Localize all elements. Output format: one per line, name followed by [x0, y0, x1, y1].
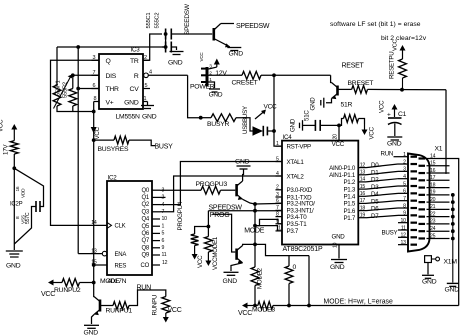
svg-text:AT89C2051P: AT89C2051P — [283, 246, 323, 253]
wire run collector — [93, 283, 95, 297]
resistor VCCMODE1 — [205, 237, 213, 253]
resistor RUNPU1 — [113, 302, 129, 310]
svg-text:+: + — [387, 112, 391, 119]
wire LED to column — [267, 130, 274, 132]
X1 pin 14 stub — [427, 158, 450, 160]
svg-text:4: 4 — [149, 70, 152, 76]
wire V+ pin drop — [93, 102, 95, 112]
svg-text:Q4: Q4 — [141, 217, 149, 223]
IC3 pin 1 GND stub — [143, 101, 148, 103]
wire ENA — [78, 253, 102, 255]
X1 pin 17 stub — [427, 179, 450, 181]
svg-text:23: 23 — [430, 219, 436, 225]
svg-text:7: 7 — [403, 196, 406, 202]
IC3 pin 5 CV stub — [143, 88, 150, 90]
wire PROGPU3 to base — [221, 189, 236, 191]
svg-text:RES: RES — [115, 263, 127, 269]
wire loop right drop — [308, 256, 310, 306]
wire D4 net — [366, 193, 398, 196]
junction V+ rail — [92, 110, 96, 114]
svg-text:11: 11 — [162, 252, 167, 258]
svg-text:P1.4: P1.4 — [343, 194, 355, 201]
svg-text:bit 2 clear=12v: bit 2 clear=12v — [381, 35, 427, 42]
wire r0 branch — [255, 244, 289, 266]
svg-text:RESETPU: RESETPU — [389, 52, 396, 79]
wire cap left join — [165, 34, 167, 47]
wire base to BRESET — [338, 88, 352, 90]
svg-text:13: 13 — [360, 170, 366, 176]
wire mode collector — [243, 244, 255, 245]
wire speedsw to vccmode1 — [207, 211, 209, 237]
svg-text:24: 24 — [430, 226, 436, 232]
ground run transistor — [84, 324, 99, 326]
wire top rail into 555C2 — [162, 46, 166, 48]
svg-text:3: 3 — [403, 167, 406, 173]
svg-text:557C: 557C — [25, 212, 31, 224]
wire 51C to vcc node — [320, 124, 339, 126]
wire IC2P cap branch lower — [14, 207, 36, 245]
X1 pin 24 stub — [427, 230, 450, 232]
X1 pin 19 stub — [427, 194, 450, 196]
svg-text:10: 10 — [401, 218, 407, 224]
svg-text:Q7: Q7 — [141, 238, 149, 244]
wire collector from reset rail — [330, 75, 333, 82]
power VCC arrow at LED — [255, 112, 264, 120]
ground under speed transistor — [227, 47, 241, 49]
ground sideways at reset emitter — [323, 98, 325, 108]
transistor Q speed switch — [213, 28, 216, 41]
IC4 pin 10 GND stub — [338, 245, 340, 259]
IC3 ground pin1 — [141, 105, 154, 107]
wire 555 R to drop — [148, 74, 187, 76]
svg-text:CO: CO — [141, 263, 150, 269]
resistor MODE3 — [258, 302, 273, 310]
svg-text:51C: 51C — [304, 110, 311, 121]
svg-text:MODE: H=wr, L=erase: MODE: H=wr, L=erase — [324, 298, 393, 305]
junction gnd bus pin 24 — [451, 229, 455, 233]
wire Q0 to PROGPU3 — [160, 189, 201, 191]
svg-text:GND: GND — [84, 330, 99, 336]
junction BUSYRES tee — [92, 138, 96, 142]
svg-text:GND: GND — [387, 141, 402, 148]
wire D0 net — [366, 164, 398, 168]
junction DIS node — [71, 73, 75, 77]
X1 pin 9 stub — [398, 214, 408, 216]
resistor BUSYRES — [114, 136, 129, 144]
IC3 pin 8 V+ stub — [94, 101, 99, 103]
IC3 pin 7 DIS stub — [92, 74, 100, 76]
svg-text:16: 16 — [430, 168, 436, 174]
wire VCC column down to RES node — [93, 112, 95, 283]
resistor RESETPU — [399, 59, 407, 78]
svg-text:25: 25 — [430, 233, 436, 239]
svg-text:GND: GND — [235, 159, 250, 166]
junction gnd bus pin 22 — [451, 215, 455, 219]
svg-text:6: 6 — [162, 238, 165, 244]
resistor PROGPU4 — [191, 234, 199, 246]
svg-text:VCC: VCC — [238, 310, 252, 317]
junction mode2 bottom — [253, 304, 257, 308]
resistor 0 — [285, 266, 293, 284]
wire prog rail — [212, 214, 235, 252]
wire MODE3 rail — [273, 305, 459, 307]
pot 555P1 wiper arrow — [54, 77, 71, 109]
X1 pin 25 stub — [427, 237, 450, 239]
svg-text:IC4: IC4 — [283, 134, 293, 141]
wire TR riser — [143, 34, 162, 60]
svg-text:GND: GND — [445, 287, 460, 294]
capacitor 555C2 — [165, 42, 167, 53]
svg-text:15: 15 — [360, 184, 366, 190]
svg-text:GND: GND — [223, 278, 238, 285]
svg-text:Q5: Q5 — [141, 224, 149, 230]
svg-text:X1M: X1M — [444, 259, 458, 266]
power VCC arrow MODE3 — [246, 305, 258, 307]
svg-text:GND: GND — [310, 97, 317, 111]
svg-text:SPEEDSW: SPEEDSW — [236, 23, 270, 30]
svg-text:10: 10 — [333, 242, 339, 248]
svg-text:PROGPU4: PROGPU4 — [177, 201, 184, 230]
junction THR riser — [76, 87, 80, 91]
svg-text:BRESET: BRESET — [348, 80, 374, 87]
wire RUNPU2 to node — [80, 282, 94, 284]
X1 pin 2 stub — [398, 163, 408, 165]
IC3 LM555 timer body — [99, 54, 143, 109]
svg-text:BUSY: BUSY — [155, 144, 174, 151]
svg-text:VDD: VDD — [21, 188, 27, 198]
svg-text:P3.0-RXD: P3.0-RXD — [287, 187, 313, 194]
svg-text:CV: CV — [130, 86, 140, 93]
svg-text:LM555N: LM555N — [116, 114, 141, 121]
power VCC arrow progpu4 — [194, 246, 196, 256]
ground under C1 — [387, 136, 402, 138]
svg-text:CRESET: CRESET — [232, 80, 258, 87]
ground POWER — [209, 88, 220, 90]
svg-text:R: R — [134, 73, 139, 80]
svg-text:P1.3: P1.3 — [343, 186, 355, 193]
junction BUSYR left — [199, 116, 203, 120]
ground IC2P — [6, 250, 23, 252]
wire D2 net — [366, 179, 398, 182]
connector X1 body — [408, 154, 430, 252]
wire D6 net — [366, 208, 398, 211]
svg-text:P3.4-T0: P3.4-T0 — [287, 214, 308, 221]
resistor MODE2 — [251, 267, 259, 286]
svg-text:P1.5: P1.5 — [343, 201, 355, 208]
svg-text:Q1: Q1 — [141, 195, 149, 201]
svg-text:D0: D0 — [371, 162, 379, 169]
svg-text:D3: D3 — [371, 184, 379, 191]
IC3 pin 6 THR stub — [92, 88, 100, 90]
svg-text:GND: GND — [330, 264, 345, 271]
X1 pin 3 stub — [398, 170, 408, 172]
wire D5 net — [366, 201, 398, 204]
junction gnd bus pin 19 — [451, 193, 455, 197]
svg-text:GND: GND — [142, 114, 157, 121]
wire bottom rail V+ — [57, 106, 94, 112]
svg-text:17: 17 — [430, 175, 436, 181]
svg-text:20: 20 — [430, 197, 436, 203]
svg-text:IC2: IC2 — [108, 175, 118, 182]
junction loop bottom — [307, 304, 311, 308]
mount hole X1M — [425, 256, 432, 263]
svg-text:AIN1-P1.1: AIN1-P1.1 — [329, 172, 356, 179]
svg-text:22: 22 — [430, 211, 436, 217]
svg-text:RUN: RUN — [137, 285, 152, 292]
connector POWER pin 1 — [201, 81, 207, 83]
resistor BUSYR — [211, 114, 236, 122]
junction mode wire tee — [253, 224, 257, 228]
svg-text:P1.7: P1.7 — [343, 215, 355, 222]
junction top rail / THR riser — [76, 45, 80, 49]
junction gnd bus pin 23 — [451, 222, 455, 226]
svg-text:software LF set (bit 1) = eras: software LF set (bit 1) = erase — [330, 21, 421, 28]
svg-text:X1: X1 — [435, 146, 443, 153]
svg-text:GND: GND — [209, 92, 223, 99]
svg-text:9: 9 — [162, 245, 165, 251]
wire pin20 riser — [338, 125, 340, 140]
svg-text:1: 1 — [276, 141, 279, 147]
wire pot top riser — [56, 47, 58, 85]
svg-text:2: 2 — [276, 185, 279, 191]
wire RUN stub — [394, 156, 399, 158]
capacitor 51C — [314, 120, 316, 131]
svg-text:12: 12 — [360, 162, 366, 168]
svg-text:D1: D1 — [371, 169, 379, 176]
wire IC2P cap branch upper — [14, 168, 43, 206]
svg-text:D2: D2 — [371, 177, 379, 184]
svg-text:Q: Q — [106, 58, 111, 65]
svg-text:VCCMODE1: VCCMODE1 — [212, 236, 219, 270]
wire THR-ENA riser — [77, 47, 79, 254]
power VCC arrow at POWER pin3 — [209, 67, 217, 69]
power VCC arrow C1 — [394, 108, 396, 117]
svg-text:8: 8 — [276, 211, 279, 217]
wire C1 to gnd — [394, 124, 396, 137]
capacitor C1 polarized — [388, 117, 402, 119]
svg-text:1: 1 — [144, 96, 147, 102]
wire X1 pin14 to MODE rail — [450, 159, 459, 306]
X1 pin 23 stub — [427, 223, 450, 225]
wire BUSYRES lead — [94, 139, 114, 141]
svg-text:Q0: Q0 — [141, 188, 149, 194]
svg-text:GND: GND — [229, 51, 244, 58]
svg-text:MODE3: MODE3 — [252, 307, 275, 314]
svg-text:IC2P: IC2P — [10, 202, 23, 208]
resistor PROGPU3 — [201, 186, 221, 194]
junction LED to column — [272, 129, 276, 133]
junction gnd bus pin 20 — [451, 200, 455, 204]
svg-text:5: 5 — [403, 181, 406, 187]
svg-text:P3.2-INTO/: P3.2-INTO/ — [287, 201, 316, 208]
resistor CRESET — [242, 71, 261, 79]
svg-text:VCC: VCC — [168, 307, 182, 314]
resistor 555R2 — [69, 89, 77, 107]
svg-text:14: 14 — [91, 220, 97, 226]
svg-text:Q8: Q8 — [141, 245, 149, 251]
resistor RUNPU2 — [62, 279, 80, 287]
svg-text:2: 2 — [403, 159, 406, 165]
svg-text:VCC: VCC — [379, 100, 386, 113]
svg-text:VCC: VCC — [197, 255, 204, 268]
junction gnd bus pin 25 — [451, 237, 455, 241]
X1 pin 12 stub — [398, 236, 408, 238]
wire THR stub — [78, 88, 99, 90]
wire 555R2 bottom — [72, 106, 74, 112]
svg-text:13: 13 — [401, 240, 407, 246]
wire r0 top right — [289, 255, 309, 257]
capacitor 555C1 — [165, 29, 167, 40]
connector POWER pin 2 — [201, 74, 207, 76]
ground bus X1 pins 19-25 — [452, 195, 454, 283]
svg-text:PROGPU3: PROGPU3 — [196, 181, 228, 188]
X1 pin 18 stub — [427, 187, 450, 189]
svg-text:20: 20 — [333, 134, 339, 140]
svg-text:18: 18 — [430, 182, 436, 188]
svg-text:1: 1 — [403, 152, 406, 158]
svg-text:16: 16 — [360, 191, 366, 197]
wire RUNPU1 to RUN — [129, 290, 166, 306]
wire 51R to arrow — [359, 119, 365, 125]
svg-text:XTAL2: XTAL2 — [287, 173, 305, 180]
transistor Q mode — [235, 249, 238, 260]
wire BRESET to junction — [368, 88, 447, 90]
junction progpu4 tee — [207, 225, 211, 229]
junction r0 bottom — [287, 304, 291, 308]
svg-text:Q9: Q9 — [141, 253, 149, 259]
junction mode riser rail — [253, 209, 257, 213]
svg-text:9: 9 — [403, 211, 406, 217]
svg-text:555C1: 555C1 — [146, 13, 152, 29]
svg-text:0: 0 — [293, 264, 297, 271]
power VCC arrow 51R — [364, 124, 366, 131]
svg-text:ENA: ENA — [115, 252, 127, 258]
svg-text:14: 14 — [430, 153, 436, 159]
IC2 4017 body — [107, 181, 152, 275]
svg-text:Q3: Q3 — [141, 209, 149, 215]
wire top rail — [57, 46, 167, 48]
X1 pin 16 stub — [427, 172, 450, 174]
wire run emitter — [92, 315, 95, 325]
svg-text:4: 4 — [403, 174, 406, 180]
svg-text:RUNPU1: RUNPU1 — [106, 308, 133, 315]
svg-text:5: 5 — [162, 231, 165, 237]
wire mode riser — [254, 204, 256, 267]
wire X1M to gnd — [427, 263, 429, 275]
svg-text:GND: GND — [290, 118, 297, 132]
svg-text:MODE: MODE — [100, 278, 120, 285]
wire 555R2 top to DIS node — [72, 76, 74, 89]
svg-text:VCC: VCC — [369, 126, 376, 139]
svg-text:Q6: Q6 — [141, 231, 149, 237]
svg-text:RUNPU: RUNPU — [152, 295, 159, 316]
svg-text:VCC: VCC — [0, 119, 5, 132]
svg-text:12V: 12V — [215, 70, 227, 77]
wire 555 Q to IC2 CLK — [51, 60, 108, 225]
junction RES/RUNPU2/collector — [92, 281, 96, 285]
X1 pin 15 stub — [427, 165, 450, 167]
resistor RUNPU — [162, 297, 170, 314]
junction IC2P top — [12, 166, 16, 170]
power VCC arrow RESETPU — [402, 49, 404, 59]
junction prog node — [253, 202, 257, 206]
svg-text:D4: D4 — [371, 191, 379, 198]
svg-text:8: 8 — [403, 203, 406, 209]
junction RES riser on VCC column — [92, 263, 96, 267]
ground X1 bus — [447, 282, 459, 284]
junction caps left upper — [164, 32, 168, 36]
wire 17V down — [13, 154, 15, 250]
X1 pin 1 stub — [398, 156, 408, 158]
wire speed collector — [221, 23, 234, 25]
wire pin9 loop — [255, 219, 282, 225]
power VCC arrow RUNPU2 — [52, 282, 62, 284]
X1 pin 20 stub — [427, 201, 450, 203]
resistor BRESET — [352, 86, 368, 94]
svg-text:12: 12 — [162, 260, 168, 266]
junction mode collector tee — [253, 243, 257, 247]
svg-text:MODE2: MODE2 — [257, 267, 264, 289]
wire D7 net — [366, 215, 398, 217]
wire DIS to node — [73, 74, 99, 76]
power VCC feed arrow at V+ — [91, 127, 97, 134]
potentiometer 555P1 — [53, 85, 61, 106]
resistor 17V — [10, 141, 18, 154]
wire drop to BUSYR — [188, 75, 201, 117]
X1 pin 11 stub — [398, 229, 408, 231]
wire progpu4 riser — [195, 227, 209, 235]
svg-text:P1.2: P1.2 — [343, 179, 355, 186]
svg-text:CLK: CLK — [115, 224, 126, 230]
svg-text:VCC: VCC — [199, 52, 204, 62]
svg-text:RUNPU2: RUNPU2 — [54, 287, 81, 294]
svg-text:AIN0-P1.0: AIN0-P1.0 — [329, 165, 356, 172]
X1 pin 5 stub — [398, 185, 408, 187]
svg-text:19: 19 — [360, 213, 366, 219]
svg-text:BUSYRES: BUSYRES — [98, 146, 129, 153]
IC3 pin 2 TR stub — [143, 59, 150, 61]
wire reset emitter — [326, 99, 332, 103]
svg-text:12: 12 — [401, 233, 407, 239]
svg-text:GND: GND — [332, 234, 346, 241]
svg-text:Q2: Q2 — [141, 202, 149, 208]
junction IC4 VCC node — [337, 124, 341, 128]
svg-text:GND: GND — [422, 279, 437, 286]
svg-text:BUSY: BUSY — [382, 230, 398, 237]
svg-text:GND: GND — [124, 100, 139, 107]
svg-text:D5: D5 — [371, 198, 379, 205]
transistor Q run — [99, 300, 102, 312]
transistor Q prog — [235, 184, 238, 196]
ground IC4 pin10 — [331, 259, 347, 261]
wire mode2 to mode3 rail — [254, 286, 256, 306]
resistor 51R — [344, 115, 359, 123]
svg-text:17: 17 — [360, 198, 366, 204]
wire reset net to X1 pin16 — [445, 90, 447, 174]
wire gnd to 51C — [303, 124, 316, 126]
junction RST-VPP column — [272, 73, 276, 77]
ground mode transistor — [224, 271, 239, 273]
svg-text:V+: V+ — [106, 100, 114, 107]
junction RESETPU bottom — [400, 88, 404, 92]
wire CRESET to RST column — [261, 74, 331, 76]
wire 555C1 to Q2 base — [171, 33, 212, 35]
wire Q3 to XTAL2 — [160, 176, 282, 212]
wire vcc node to 51R — [339, 119, 344, 126]
svg-text:14: 14 — [360, 177, 366, 183]
wire D3 net — [366, 186, 398, 189]
IC3 pin 3 Q stub — [92, 59, 100, 61]
